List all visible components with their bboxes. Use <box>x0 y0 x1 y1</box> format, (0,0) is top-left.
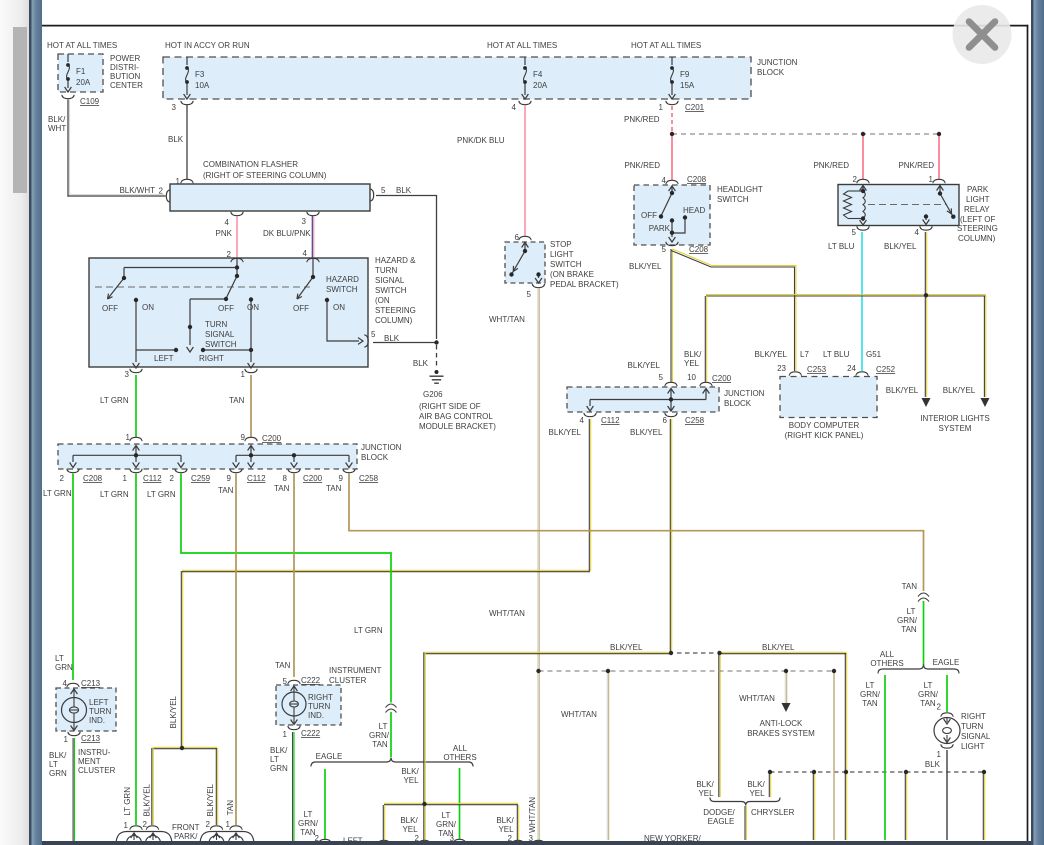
svg-text:BLK/YEL: BLK/YEL <box>549 428 582 437</box>
headlight switch <box>666 180 678 184</box>
svg-text:TURN: TURN <box>89 707 111 716</box>
light assembly 1 <box>130 826 142 830</box>
light assembly 2 <box>210 826 222 830</box>
junction node (672,82) <box>670 80 674 84</box>
interior lights arrows <box>922 398 931 407</box>
svg-text:2: 2 <box>206 820 211 829</box>
svg-text:1: 1 <box>241 370 246 379</box>
svg-text:COLUMN): COLUMN) <box>375 316 413 325</box>
wire BLK/YEL jb pin4 down-left to front park lights <box>183 419 591 748</box>
svg-text:GRN: GRN <box>270 764 288 773</box>
svg-text:LT GRN: LT GRN <box>147 490 176 499</box>
hazard box pin 1 (RIGHT output) <box>245 369 257 373</box>
svg-text:INSTRU-: INSTRU- <box>78 748 111 757</box>
svg-text:SIGNAL: SIGNAL <box>961 732 991 741</box>
svg-text:OFF: OFF <box>641 211 657 220</box>
svg-text:BLK/: BLK/ <box>496 816 514 825</box>
svg-text:BLK/YEL: BLK/YEL <box>755 350 788 359</box>
svg-text:10A: 10A <box>195 81 210 90</box>
svg-text:(RIGHT KICK PANEL): (RIGHT KICK PANEL) <box>785 431 864 440</box>
junction node (124,278) <box>122 276 126 280</box>
junction node (294,455.3) <box>292 453 296 457</box>
svg-text:YEL: YEL <box>402 825 418 834</box>
junction node (538.5,274.5) <box>536 272 540 276</box>
stop light switch <box>519 236 531 240</box>
junction node (187,82) <box>185 80 189 84</box>
dashed WHT/TAN line y=671 <box>539 670 835 672</box>
svg-text:L7: L7 <box>800 350 809 359</box>
svg-text:JUNCTION: JUNCTION <box>757 58 798 67</box>
svg-text:4: 4 <box>662 176 667 185</box>
svg-text:C258: C258 <box>685 416 705 425</box>
svg-text:TAN: TAN <box>326 484 342 493</box>
svg-text:GRN/: GRN/ <box>918 690 939 699</box>
close button <box>953 5 1012 64</box>
BLK/YEL distribution line to interior lights <box>706 294 986 296</box>
left jb bottom pins <box>67 469 79 473</box>
svg-text:LT: LT <box>304 810 313 819</box>
wire LT GRN jb pin2/C259 across to instrument cluster <box>181 474 391 703</box>
junction node (538.5,671) <box>536 669 540 673</box>
flasher pin 5 <box>370 189 374 201</box>
svg-text:C201: C201 <box>685 103 705 112</box>
wire TAN jb pin9/C112 down to front park light <box>235 474 237 826</box>
junction node (190,327) <box>188 325 192 329</box>
svg-text:PARK: PARK <box>649 224 671 233</box>
svg-text:PNK/DK BLU: PNK/DK BLU <box>457 136 505 145</box>
verticals from dashed line to bottom <box>812 773 814 840</box>
svg-text:BLK/: BLK/ <box>48 115 66 124</box>
svg-text:LT: LT <box>55 654 64 663</box>
junction node (313,277) <box>311 275 315 279</box>
svg-text:WHT/TAN: WHT/TAN <box>489 315 525 324</box>
svg-text:TAN: TAN <box>902 582 918 591</box>
relay coil <box>860 186 867 191</box>
svg-text:10: 10 <box>687 373 696 382</box>
svg-text:MODULE BRACKET): MODULE BRACKET) <box>419 422 496 431</box>
junction node (814,772) <box>812 770 816 774</box>
svg-text:BLOCK: BLOCK <box>724 399 752 408</box>
scrollbar track <box>0 0 29 845</box>
mechanical linkage dashed line <box>95 286 310 288</box>
junction node (187,68) <box>185 66 189 70</box>
svg-text:HAZARD &: HAZARD & <box>375 256 416 265</box>
svg-text:YEL: YEL <box>684 359 700 368</box>
svg-text:C258: C258 <box>359 474 379 483</box>
svg-text:YEL: YEL <box>698 789 714 798</box>
svg-text:TURN: TURN <box>375 266 397 275</box>
svg-text:JUNCTION: JUNCTION <box>361 443 402 452</box>
svg-text:HEAD: HEAD <box>683 206 705 215</box>
svg-text:PARK/: PARK/ <box>174 832 198 841</box>
svg-text:COLUMN): COLUMN) <box>958 234 996 243</box>
junction node (226,299) <box>224 297 228 301</box>
svg-text:20A: 20A <box>533 81 548 90</box>
junction node (251,350) <box>249 348 253 352</box>
svg-text:PEDAL BRACKET): PEDAL BRACKET) <box>550 280 619 289</box>
wire TAN hazard pin1 to junction block pin9 <box>250 375 252 437</box>
svg-text:BLK/YEL: BLK/YEL <box>943 386 976 395</box>
ground node G206 <box>436 345 438 369</box>
svg-text:WHT: WHT <box>48 124 66 133</box>
svg-text:PNK/RED: PNK/RED <box>624 115 660 124</box>
svg-text:LT: LT <box>866 681 875 690</box>
svg-text:ANTI-LOCK: ANTI-LOCK <box>760 719 803 728</box>
svg-text:RELAY: RELAY <box>964 205 990 214</box>
svg-text:TAN: TAN <box>862 699 878 708</box>
wire BLK hazard pin5 to ground node <box>373 342 437 344</box>
svg-text:DK BLU/PNK: DK BLU/PNK <box>263 229 311 238</box>
svg-text:2: 2 <box>937 703 942 712</box>
svg-text:PNK: PNK <box>216 229 233 238</box>
wire BLK/YEL relay pin4 down <box>924 232 926 295</box>
svg-text:4: 4 <box>915 228 920 237</box>
junction node (525,82) <box>523 80 527 84</box>
svg-text:1: 1 <box>176 177 181 186</box>
right brace ALL OTHERS / EAGLE <box>878 665 959 674</box>
svg-text:5: 5 <box>371 330 376 339</box>
svg-text:EAGLE: EAGLE <box>708 817 735 826</box>
svg-text:F4: F4 <box>533 70 543 79</box>
svg-text:C200: C200 <box>712 374 732 383</box>
svg-text:HOT IN ACCY OR RUN: HOT IN ACCY OR RUN <box>165 41 250 50</box>
svg-text:DODGE/: DODGE/ <box>703 808 735 817</box>
junction block (middle right) <box>665 382 677 386</box>
svg-text:1: 1 <box>124 821 129 830</box>
svg-text:BLK/: BLK/ <box>684 350 702 359</box>
svg-text:C112: C112 <box>601 416 620 425</box>
svg-text:G206: G206 <box>423 390 443 399</box>
dashed branch line to park light relay <box>672 133 939 135</box>
junction node (672,220.5) <box>670 218 674 222</box>
svg-text:C208: C208 <box>689 245 709 254</box>
svg-text:LT: LT <box>924 681 933 690</box>
svg-text:6: 6 <box>515 233 520 242</box>
svg-text:STEERING: STEERING <box>375 306 416 315</box>
svg-text:BLK/YEL: BLK/YEL <box>206 783 215 816</box>
left pole feed wire <box>124 267 237 269</box>
svg-text:HOT AT ALL TIMES: HOT AT ALL TIMES <box>487 41 557 50</box>
wire BLK/LT GRN down from pin 1 <box>72 738 74 841</box>
svg-text:CENTER: CENTER <box>110 81 143 90</box>
wire LT GRN hazard pin3 to junction block pin1 <box>135 375 137 437</box>
svg-text:WHT/TAN: WHT/TAN <box>739 694 775 703</box>
anti-lock brakes branch <box>784 672 786 703</box>
wire BLK/YEL headlight pin5 down to junction block pin 5 <box>670 249 672 382</box>
horizontal BLK/YEL at y=804 <box>384 802 518 804</box>
svg-text:TAN: TAN <box>275 661 291 670</box>
svg-text:(RIGHT OF STEERING COLUMN): (RIGHT OF STEERING COLUMN) <box>203 171 327 180</box>
wire PNK/RED to headlight switch pin 4 <box>671 136 673 180</box>
svg-text:STOP: STOP <box>550 240 572 249</box>
svg-text:WHT/TAN: WHT/TAN <box>528 797 537 833</box>
junction node (251,455.3) <box>249 453 253 457</box>
svg-text:BRAKES SYSTEM: BRAKES SYSTEM <box>747 729 815 738</box>
svg-text:3: 3 <box>125 370 130 379</box>
svg-text:LT: LT <box>49 760 58 769</box>
svg-text:OTHERS: OTHERS <box>870 659 903 668</box>
fuse F3 10A <box>186 57 188 65</box>
svg-text:TURN: TURN <box>308 702 330 711</box>
junction node (984,772) <box>982 770 986 774</box>
svg-text:C208: C208 <box>687 175 707 184</box>
svg-text:TAN: TAN <box>372 740 388 749</box>
svg-text:1: 1 <box>126 433 131 442</box>
junction node (251,299.5) <box>249 297 253 301</box>
junction node (672,68) <box>670 66 674 70</box>
wire DK BLU/PNK flasher pin3 to hazard switch pin 4 <box>311 216 313 258</box>
svg-text:ON: ON <box>142 303 154 312</box>
junction node (786,671) <box>784 669 788 673</box>
svg-text:BLK: BLK <box>168 135 184 144</box>
flasher pin 2 <box>166 190 170 202</box>
svg-text:BLK/: BLK/ <box>401 767 419 776</box>
BLK/YEL run from jb pin6 horizontal at y=653 <box>425 651 672 653</box>
svg-text:9: 9 <box>339 474 344 483</box>
svg-text:1: 1 <box>226 820 231 829</box>
svg-text:ALL: ALL <box>880 650 895 659</box>
svg-text:OFF: OFF <box>293 304 309 313</box>
vertical BLK/YEL at x=425 down to lights <box>423 652 425 840</box>
svg-text:LT GRN: LT GRN <box>100 396 129 405</box>
svg-text:C222: C222 <box>301 729 321 738</box>
svg-text:6: 6 <box>663 416 668 425</box>
svg-text:C208: C208 <box>83 474 103 483</box>
dashed BLK line y=772 <box>770 771 984 773</box>
svg-text:C200: C200 <box>262 434 282 443</box>
svg-text:BLK/WHT: BLK/WHT <box>119 186 155 195</box>
svg-text:BLK/: BLK/ <box>400 816 418 825</box>
svg-text:LT GRN: LT GRN <box>123 787 132 816</box>
junction node (237,267.5) <box>235 265 239 269</box>
wire LT BLU relay pin5 to body computer pin 24 <box>861 232 863 371</box>
junction node (511.5,274.5) <box>509 272 513 276</box>
relay pin 5 <box>857 226 869 230</box>
svg-text:1: 1 <box>659 103 664 112</box>
svg-text:EAGLE: EAGLE <box>933 658 960 667</box>
junction node (436.5,372) <box>435 370 439 374</box>
wire LT GRN jb pin2/C208 to left turn indicator <box>72 474 74 681</box>
svg-text:9: 9 <box>227 474 232 483</box>
wire PNK/RED to relay pin 2 <box>862 136 864 179</box>
svg-text:IND.: IND. <box>308 711 324 720</box>
svg-text:WHT/TAN: WHT/TAN <box>561 710 597 719</box>
svg-text:PNK/RED: PNK/RED <box>898 161 934 170</box>
junction node (685,217.5) <box>683 215 687 219</box>
svg-text:1: 1 <box>123 474 128 483</box>
hazard box pin 3 (LEFT output) <box>130 369 142 373</box>
svg-text:LT BLU: LT BLU <box>828 242 855 251</box>
svg-text:ALL: ALL <box>453 744 468 753</box>
svg-text:4: 4 <box>580 416 585 425</box>
svg-text:GRN/: GRN/ <box>369 731 390 740</box>
svg-text:GRN: GRN <box>55 663 73 672</box>
svg-text:CHRYSLER: CHRYSLER <box>751 808 795 817</box>
fuse F1 20A <box>67 54 69 62</box>
wire LT GRN/TAN ALL OTHERS branch <box>459 768 461 839</box>
svg-text:BLK: BLK <box>396 186 412 195</box>
svg-text:RIGHT: RIGHT <box>308 693 333 702</box>
turn signal switch arm <box>226 276 237 299</box>
svg-text:C213: C213 <box>81 679 101 688</box>
wire PNK/RED to relay pin 1 <box>938 136 940 179</box>
svg-text:YEL: YEL <box>403 776 419 785</box>
svg-text:(ON: (ON <box>375 296 390 305</box>
junction node (770,772) <box>768 770 772 774</box>
flasher pin 4 <box>231 212 243 216</box>
svg-text:C252: C252 <box>876 365 896 374</box>
svg-text:HAZARD: HAZARD <box>326 275 359 284</box>
svg-text:INTERIOR LIGHTS: INTERIOR LIGHTS <box>920 414 989 423</box>
svg-text:1: 1 <box>929 175 934 184</box>
svg-text:ON: ON <box>333 303 345 312</box>
wire PNK/DK BLU from F4 to stop light switch <box>524 105 526 236</box>
svg-text:STEERING: STEERING <box>957 224 998 233</box>
svg-text:1: 1 <box>937 750 942 759</box>
svg-text:COMBINATION FLASHER: COMBINATION FLASHER <box>203 160 298 169</box>
svg-text:LT GRN: LT GRN <box>100 490 129 499</box>
svg-text:C112: C112 <box>247 474 266 483</box>
wire PNK/RED from F9 (dashed section) <box>671 106 673 131</box>
svg-text:2: 2 <box>170 474 175 483</box>
svg-text:LEFT: LEFT <box>89 698 109 707</box>
svg-text:WHT/TAN: WHT/TAN <box>489 609 525 618</box>
flasher pin 1 <box>181 179 193 183</box>
wire TAN jb pin9/C258 across to right turn signal light <box>349 474 924 592</box>
svg-text:LT GRN: LT GRN <box>43 489 72 498</box>
wire break symbol <box>386 704 397 708</box>
svg-text:LT GRN: LT GRN <box>354 626 383 635</box>
body computer <box>789 372 801 376</box>
svg-text:GRN: GRN <box>49 769 67 778</box>
junction block (top) box <box>163 57 751 99</box>
svg-text:RIGHT: RIGHT <box>199 354 224 363</box>
svg-text:BLK/YEL: BLK/YEL <box>169 695 178 728</box>
junction node (863,218.5) <box>861 216 865 220</box>
svg-text:1: 1 <box>283 730 288 739</box>
svg-text:2: 2 <box>227 250 232 259</box>
svg-text:BLK/: BLK/ <box>49 751 67 760</box>
wire TAN jb pin8/C200 to right turn indicator <box>293 474 295 678</box>
junction node (926,295.3) <box>924 293 928 297</box>
wire WHT/TAN x=608 <box>606 671 608 840</box>
svg-text:RIGHT: RIGHT <box>961 712 986 721</box>
svg-text:INSTRUMENT: INSTRUMENT <box>329 666 382 675</box>
svg-text:8: 8 <box>283 474 288 483</box>
junction node (672,193) <box>670 191 674 195</box>
gather brace DODGE/EAGLE CHRYSLER <box>710 798 780 806</box>
bulb symbol <box>62 698 87 723</box>
scrollbar thumb <box>13 27 27 193</box>
svg-text:HOT AT ALL TIMES: HOT AT ALL TIMES <box>631 41 701 50</box>
hazard pole from pin 4 <box>312 258 314 277</box>
svg-text:SWITCH: SWITCH <box>326 285 358 294</box>
svg-text:BUTION: BUTION <box>110 72 140 81</box>
junction node (525,68) <box>523 66 527 70</box>
svg-text:BLK/YEL: BLK/YEL <box>143 783 152 816</box>
svg-text:TURN: TURN <box>961 722 983 731</box>
BLK/YEL right vertical x=846 <box>844 653 846 840</box>
svg-text:2: 2 <box>60 474 65 483</box>
svg-text:4: 4 <box>512 103 517 112</box>
fuse F4 20A <box>524 57 526 65</box>
svg-text:CLUSTER: CLUSTER <box>78 766 116 775</box>
svg-text:BLK/: BLK/ <box>270 746 288 755</box>
wire PNK flasher pin4 to hazard switch pin 2 <box>236 216 238 258</box>
svg-text:SYSTEM: SYSTEM <box>939 424 972 433</box>
junction node (671,399.5) <box>669 397 673 401</box>
svg-text:OFF: OFF <box>102 304 118 313</box>
svg-text:5: 5 <box>852 228 857 237</box>
svg-text:LEFT: LEFT <box>154 354 174 363</box>
junction node (136,300) <box>134 298 138 302</box>
wire to pin 3 with arrow <box>135 350 137 362</box>
svg-text:LT: LT <box>907 607 916 616</box>
wire BLK/YEL jb pin6 down <box>669 419 671 652</box>
junction node (68,79) <box>66 77 70 81</box>
svg-text:2: 2 <box>143 820 148 829</box>
svg-text:BLK: BLK <box>925 760 941 769</box>
svg-text:20A: 20A <box>76 78 91 87</box>
junction node (424.5,804) <box>422 802 426 806</box>
svg-text:23: 23 <box>777 364 786 373</box>
pin 4 of junction block <box>519 101 531 105</box>
svg-text:C200: C200 <box>303 474 323 483</box>
svg-text:5: 5 <box>659 373 664 382</box>
pin 3 of junction block <box>181 101 193 105</box>
svg-text:C222: C222 <box>301 676 321 685</box>
svg-text:5: 5 <box>381 186 386 195</box>
svg-text:GRN/: GRN/ <box>436 820 457 829</box>
junction node (834,671) <box>832 669 836 673</box>
junction block (left) <box>130 437 142 441</box>
svg-text:SIGNAL: SIGNAL <box>205 330 235 339</box>
wire BLK from bulb to bottom <box>946 750 948 840</box>
svg-text:LT: LT <box>442 811 451 820</box>
svg-text:ON: ON <box>247 303 259 312</box>
junction node (661,216.5) <box>659 214 663 218</box>
right window edge bar <box>1031 0 1034 845</box>
LT GRN/TAN from TAN wire <box>923 601 925 665</box>
hazard box pin 4 <box>307 258 319 262</box>
pin 1 / connector C201 <box>666 101 678 105</box>
svg-text:BLK/YEL: BLK/YEL <box>886 386 919 395</box>
svg-text:MENT: MENT <box>78 757 101 766</box>
junction node (672,232.7) <box>670 231 674 235</box>
svg-text:HEADLIGHT: HEADLIGHT <box>717 185 763 194</box>
wire LT GRN/TAN eagle branch to right turn signal light <box>946 675 948 712</box>
relay pin 4 <box>920 226 932 230</box>
svg-text:GRN/: GRN/ <box>860 690 881 699</box>
svg-text:DISTRI-: DISTRI- <box>110 63 139 72</box>
junction node (203,350) <box>201 348 205 352</box>
junction node (525,251) <box>523 249 527 253</box>
wire LT GRN/TAN EAGLE branch <box>324 769 326 839</box>
junction node (940,193.5) <box>938 191 942 195</box>
left window edge bar <box>29 0 32 845</box>
svg-text:(ON BRAKE: (ON BRAKE <box>550 270 594 279</box>
svg-text:C259: C259 <box>191 474 211 483</box>
svg-text:5: 5 <box>662 245 667 254</box>
wire BLK/LT GRN down from right turn ind pin 1 <box>292 732 294 841</box>
junction node (671,653) <box>669 651 673 655</box>
svg-text:BLK: BLK <box>384 334 400 343</box>
svg-text:POWER: POWER <box>110 54 140 63</box>
svg-text:24: 24 <box>847 364 856 373</box>
svg-text:C112: C112 <box>143 474 162 483</box>
wire WHT/TAN from stop light switch down <box>537 288 539 841</box>
left pole switch arm (to OFF) <box>108 278 125 299</box>
